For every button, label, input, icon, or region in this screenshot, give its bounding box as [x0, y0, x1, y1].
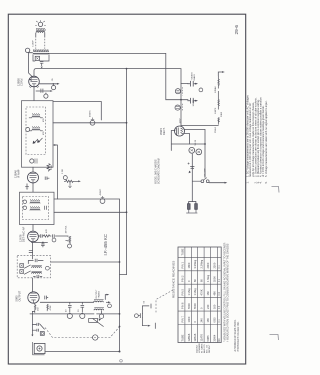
dashed mechanical linkage to switch: [45, 327, 120, 338]
svg-text:12BA6: 12BA6: [193, 333, 197, 341]
loop antenna ref circle L1: [35, 20, 46, 26]
wire: B+ jog from IF can to slug: [53, 102, 101, 121]
value label T1 coils: [43, 118, 45, 135]
capacitor C9 on detector output line: [29, 251, 33, 253]
svg-text:LOOP: LOOP: [33, 40, 35, 47]
svg-text:50-30: 50-30: [195, 139, 197, 145]
electrolytic capacitor C17 on AC line: [188, 163, 195, 174]
wire: output cathode line B: [30, 313, 94, 315]
svg-text:50B5: 50B5: [206, 335, 210, 342]
capacitor C7 coupling: [52, 234, 54, 237]
wire: IF2 secondary to detector: [32, 225, 34, 232]
coupler ref circle: [46, 266, 50, 270]
svg-text:1 Meg: 1 Meg: [193, 288, 197, 296]
wire: coupler output line: [51, 261, 120, 263]
node: filter loop dot: [204, 143, 206, 145]
svg-text:SCHEMATIC DIAGRAM: SCHEMATIC DIAGRAM: [158, 158, 161, 184]
tube V2 label 12BA6: [14, 169, 21, 178]
choke L3 on line A: [94, 300, 104, 303]
svg-text:12BE6: 12BE6: [187, 333, 191, 341]
line bypass capacitor network C15: [135, 304, 156, 329]
table narrow column values: [219, 265, 221, 342]
svg-text:2200: 2200: [212, 262, 216, 268]
svg-text:PIN 2: PIN 2: [180, 275, 184, 282]
wire: line B continues under choke: [97, 313, 104, 315]
wire: IF1 secondary to IF amp tube: [32, 167, 34, 172]
svg-text:5.: 5.: [264, 181, 268, 183]
T1 primary winding: [29, 113, 43, 118]
node: detector return dot: [42, 242, 44, 244]
capacitor C12 at output grid: [45, 296, 48, 300]
speaker SP1 box: [33, 342, 45, 355]
capacitor C8 to ground: [41, 242, 44, 247]
T2 primary winding: [30, 199, 40, 203]
coupling unit PC1 (dashed box): [17, 256, 50, 278]
wire: switch branch to line: [209, 182, 224, 184]
svg-text:2900: 2900: [206, 262, 210, 268]
svg-text:RESISTANCE READINGS: RESISTANCE READINGS: [172, 261, 176, 298]
wire: volume control feed: [56, 235, 69, 238]
svg-text:CONV.: CONV.: [20, 78, 24, 86]
svg-text:470K: 470K: [200, 289, 204, 295]
wire: line A rise past choke to arrow: [105, 295, 106, 300]
value label heater chain: [214, 86, 223, 133]
svg-text:117V: 117V: [180, 118, 182, 123]
wire: filter node horizontal: [171, 143, 205, 145]
svg-text:1800: 1800: [187, 262, 191, 268]
svg-text:5500: 5500: [193, 303, 197, 309]
capacitor C10 inside coupler top: [28, 259, 43, 264]
svg-text:I.F.-455 KC: I.F.-455 KC: [103, 234, 108, 256]
svg-text:160: 160: [212, 304, 216, 309]
resistor R3 detector load: [43, 235, 51, 237]
svg-text:PHOTOFACT FOLDER INC.: PHOTOFACT FOLDER INC.: [237, 321, 240, 352]
wire: IF amp tube to IF can 2: [32, 183, 34, 192]
svg-text:TUBE: TUBE: [180, 248, 184, 255]
wire: detector diode return: [31, 241, 47, 243]
node: linkage dot: [119, 326, 121, 328]
wire: coupler to output tube grid: [32, 278, 34, 291]
power switch S2 contacts: [192, 178, 209, 183]
T1 secondary winding: [29, 126, 43, 131]
wire: B minus line down from filter: [204, 130, 206, 178]
arrow on cathode lead: [50, 90, 52, 92]
svg-text:50B5: 50B5: [221, 111, 223, 117]
svg-text:TUBE: TUBE: [180, 334, 184, 341]
table data cells: [187, 259, 217, 322]
wire: gang junction down to rectifier tube: [180, 100, 182, 127]
svg-text:1M VOL: 1M VOL: [66, 225, 68, 234]
svg-text:35W4: 35W4: [215, 127, 217, 133]
tuning gang section A (variable capacitor): [187, 81, 198, 87]
wire: converter cathode lead: [36, 90, 50, 92]
IF transformer T2 can (solid box): [20, 192, 55, 224]
table header labels: [180, 248, 184, 341]
node: converter plate junction: [53, 83, 54, 84]
value label gang A: [192, 72, 197, 81]
heater chain resistors R9: [218, 76, 219, 125]
node: coupler line dot: [119, 261, 121, 263]
svg-text:PIN 1: PIN 1: [180, 261, 184, 268]
svg-text:5. Voltage measurements are t: 5. Voltage measurements are taken with n…: [264, 100, 268, 177]
resistor R8 grid leak: [47, 304, 49, 311]
coil L1 primary winding: [36, 28, 46, 37]
wire: oscillator line to gang section B: [34, 69, 188, 84]
AC line plug P1: [186, 202, 197, 214]
svg-text:4.: 4.: [259, 181, 263, 183]
tube V3 label 12AT6: [19, 226, 26, 242]
coupler terminal squares: [20, 264, 24, 274]
border frame of schematic: [8, 14, 245, 364]
svg-text:PATENT: PATENT: [208, 344, 211, 353]
tube V4 label 50B5: [15, 290, 22, 301]
resistance readings table grid: [178, 247, 221, 343]
svg-text:480: 480: [212, 291, 216, 296]
svg-text:470K: 470K: [50, 305, 52, 311]
svg-text:2.2M: 2.2M: [62, 169, 64, 174]
wire: AC line down to plug: [191, 154, 193, 202]
wire: gang B stator to junction: [180, 84, 182, 100]
dial cord dashed line: [156, 290, 174, 313]
wire: detector output down to coupler: [32, 242, 34, 259]
value label L3: [96, 289, 101, 299]
wire: line from 2nd IF to bus: [54, 211, 127, 213]
small ring mark at bottom center: [120, 360, 123, 363]
capacitor C1 below antenna loop: [40, 62, 43, 69]
svg-text:PIN 5: PIN 5: [180, 288, 184, 295]
wire: output plate line A: [40, 301, 93, 303]
gang trimmer B: [175, 105, 180, 110]
IF transformer T1 shield (dashed box): [26, 107, 46, 155]
svg-text:12BA6: 12BA6: [214, 86, 217, 93]
capacitor C6 at detector plate: [40, 234, 43, 238]
filter capacitor can sections C16A C16B: [189, 147, 202, 154]
choke L4 on line B: [94, 308, 104, 311]
svg-text:10-365: 10-365: [193, 99, 195, 107]
rectifier tube V5 35W4: [175, 126, 185, 136]
svg-text:1 Meg: 1 Meg: [206, 274, 210, 282]
wire: converter plate lead: [39, 83, 57, 85]
node: gang junction dot: [180, 99, 182, 101]
converter tube V1 12BE6: [29, 76, 40, 87]
svg-text:1000: 1000: [187, 316, 191, 322]
wire: rectifier plate lead right: [184, 129, 205, 131]
switch S1 on volume control: [31, 311, 44, 336]
node: 2nd IF line dot: [126, 211, 128, 213]
svg-text:† MEASURED FROM SOCKET PINS TO: † MEASURED FROM SOCKET PINS TO COMMON NE…: [227, 243, 230, 342]
capacitor C14 shunt with ref circle: [80, 302, 85, 318]
svg-text:1.: 1.: [246, 181, 250, 183]
capacitor C5 at IF amp plate: [45, 177, 49, 180]
ground symbol at IF amp cathode: [25, 184, 29, 190]
svg-text:3.3Meg: 3.3Meg: [193, 259, 197, 268]
resistor R1 screen dropper: [47, 164, 50, 172]
coupler wiper arrows: [24, 265, 31, 274]
svg-text:5500: 5500: [187, 303, 191, 309]
value label antenna: [33, 40, 35, 47]
svg-text:240: 240: [206, 304, 210, 309]
arrow on converter plate lead: [57, 83, 60, 85]
T1 tuning slug arrows: [33, 138, 43, 144]
svg-text:ON-OFF: ON-OFF: [205, 167, 207, 176]
wire: grid lead antenna coil to converter: [29, 53, 33, 77]
arrow: T1 output to grid: [53, 144, 57, 199]
capacitor C11 coupler bottom: [33, 275, 42, 278]
capacitor C3 on cathode lead: [41, 89, 43, 93]
svg-text:GANG: GANG: [193, 74, 196, 81]
T2 secondary winding: [30, 206, 40, 210]
svg-text:2.2Meg: 2.2Meg: [200, 259, 204, 268]
resistor R2 AVC with ref circle and arrow: [63, 176, 80, 188]
wire: converter tube bottom to IF can 1: [33, 87, 35, 101]
antenna rod coil L2 with core hatching: [33, 49, 49, 54]
wire: AVC line from IF transformer 1 to bus: [53, 122, 127, 124]
coupler resistor element R6: [32, 271, 42, 273]
svg-text:12AT6: 12AT6: [214, 107, 217, 114]
svg-text:IF AMP: IF AMP: [17, 169, 21, 178]
trimmer box on antenna coil: [35, 56, 39, 60]
arrow on line A end: [106, 301, 111, 307]
gang link dashes B: [182, 104, 184, 112]
wire: rectifier heater chain bottom return: [181, 125, 218, 127]
node: line B dot: [119, 313, 121, 315]
tone switch block: [89, 318, 104, 326]
wire: line B extension: [103, 313, 119, 315]
svg-text:160: 160: [206, 291, 210, 296]
svg-text:165: 165: [206, 318, 210, 323]
gang link dashes A: [182, 87, 184, 95]
grid chevrons at converter left: [30, 79, 32, 81]
svg-text:DET-AVC-AF: DET-AVC-AF: [22, 226, 26, 242]
wire: antenna line to gang section A: [49, 53, 188, 99]
capacitor C4 ref circle: [44, 93, 48, 99]
coil bottom loop wire: [33, 55, 49, 61]
svg-text:455KC: 455KC: [90, 110, 92, 117]
tube V5 label 35W4: [159, 127, 166, 135]
capacitor C2 ref circle under plate junction: [52, 84, 56, 90]
ref circle on linkage: [93, 335, 98, 340]
volume control R4 with wiper arrow: [66, 236, 72, 248]
slug ref circle on AVC line: [90, 118, 95, 126]
gang trimmer A: [175, 89, 180, 94]
capacitor ref circle inside T1 base: [30, 159, 37, 164]
IF transformer T1 can (solid box): [22, 101, 54, 168]
arrow at heater chain top: [222, 71, 225, 73]
svg-text:150K: 150K: [51, 164, 53, 170]
T2 ref circles: [23, 200, 27, 210]
wire: pilot lamp lead: [46, 351, 120, 353]
svg-text:PIN 7: PIN 7: [180, 315, 184, 322]
bracket mark right margin lower: [270, 335, 279, 341]
table tube name column: [187, 333, 217, 341]
resistor R7 output cathode: [34, 303, 36, 313]
node: oscillator line dot: [126, 68, 128, 70]
copyright block lower center: [197, 343, 212, 353]
svg-text:OUTPUT: OUTPUT: [18, 290, 22, 301]
wire: bus link: [120, 274, 127, 276]
tuning gang section B (variable capacitor): [187, 98, 198, 104]
svg-text:35W4: 35W4: [212, 334, 216, 341]
svg-text:NC: NC: [219, 338, 221, 342]
IF amplifier tube V2 12BA6: [28, 172, 39, 183]
note item numbers row: [246, 181, 268, 183]
wire: rectifier output loop: [184, 134, 189, 145]
svg-text:1 Meg: 1 Meg: [187, 288, 191, 296]
svg-text:RECT.: RECT.: [162, 127, 166, 135]
svg-text:TRANS: TRANS: [98, 291, 101, 299]
bracket mark right margin upper: [272, 187, 280, 193]
ref circle under C7: [52, 238, 56, 242]
antenna coil ref circle: [25, 48, 29, 52]
svg-text:29-6: 29-6: [234, 25, 240, 35]
svg-text:5500: 5500: [212, 276, 216, 282]
capacitor inside T2 right: [45, 206, 47, 210]
wire: heater chain top corner: [218, 72, 222, 76]
svg-text:455KC: 455KC: [100, 188, 102, 195]
svg-text:0/35: 0/35: [212, 317, 216, 323]
svg-text:PIN 6: PIN 6: [180, 302, 184, 309]
svg-text:47K: 47K: [46, 229, 48, 233]
slug ref circle on return line: [100, 196, 105, 203]
tube V1 label 12BE6: [17, 78, 24, 86]
gang ref circle: [199, 88, 203, 92]
svg-text:240: 240: [200, 318, 204, 323]
svg-text:12AT6: 12AT6: [200, 333, 204, 341]
model text block center: [155, 158, 161, 184]
wire: vertical bus from oscillator line down: [126, 69, 128, 275]
detector tube V3 12AT6: [28, 231, 39, 242]
wire: rectifier left stub down to filter cans: [171, 131, 175, 151]
wire: detector plate load lead: [38, 235, 40, 237]
T1 ref circle on shield edge: [26, 128, 30, 132]
node: pilot lamp junction dot: [119, 351, 121, 353]
notes paragraph right margin: [246, 95, 268, 177]
IF transformer T2 shield (dashed box): [23, 197, 49, 220]
ref circle and arrow under line B choke: [99, 311, 104, 322]
output tube V4 50B5: [28, 292, 39, 303]
node: AVC takeoff dot: [126, 122, 128, 124]
capacitor C13 shunt with ref circle: [67, 302, 72, 318]
wire: AVC return with corner: [54, 199, 120, 352]
coupler resistor element R5: [32, 266, 42, 268]
arrow at line A output: [107, 294, 110, 296]
arrow on switch branch: [225, 182, 228, 184]
dashed core link of loop antenna: [36, 39, 45, 49]
